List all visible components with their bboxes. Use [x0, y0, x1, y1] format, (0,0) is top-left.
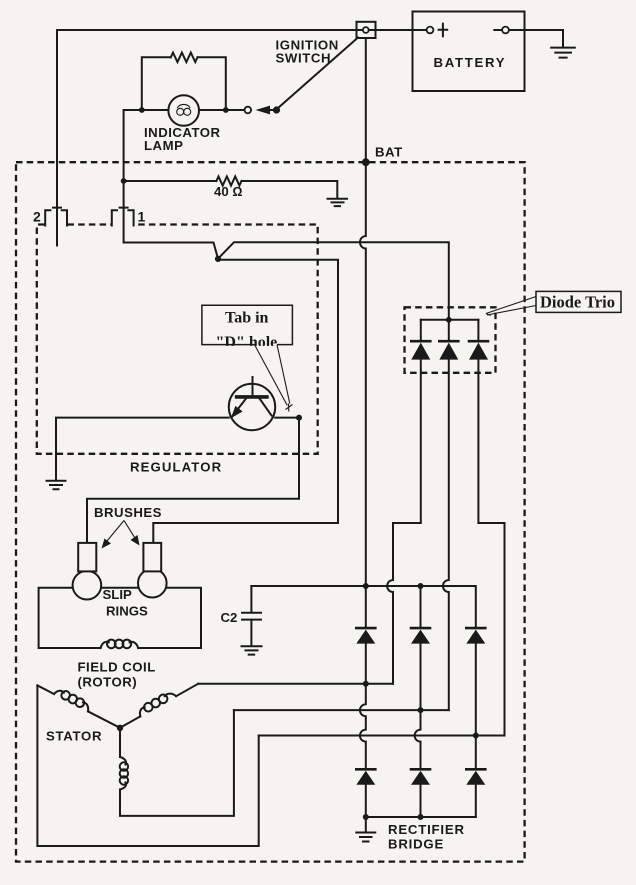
svg-text:BAT: BAT — [375, 145, 403, 160]
rectifier diode D4 (col1 upper) — [356, 627, 375, 630]
rectifier diode D6 (col3 upper) — [466, 627, 485, 630]
brush left — [78, 543, 96, 572]
ground (40 ohm) — [328, 199, 348, 206]
ignition switch terminal circle — [363, 27, 369, 33]
ground (C2) — [242, 646, 262, 654]
diode trio D2 — [448, 320, 450, 340]
svg-text:SWITCH: SWITCH — [276, 51, 332, 66]
svg-text:C2: C2 — [221, 610, 238, 625]
svg-text:Diode Trio: Diode Trio — [540, 293, 615, 312]
battery + sign — [439, 24, 448, 37]
BAT node dot — [362, 158, 370, 166]
ground (rectifier) — [356, 817, 375, 842]
wire battery minus to ground — [509, 30, 563, 47]
resistor (lamp shunt) zigzag — [171, 53, 198, 62]
svg-text:REGULATOR: REGULATOR — [130, 460, 222, 475]
ignition switch lever — [278, 38, 359, 109]
indicator lamp circle — [168, 95, 199, 126]
ground (regulator) — [47, 481, 66, 489]
svg-text:1: 1 — [138, 209, 146, 225]
ignition switch contact circle — [245, 107, 252, 114]
stator phase B line — [234, 709, 449, 711]
wire 40 ohm row — [124, 181, 338, 198]
rectifier diode D5 (col2 upper) — [420, 586, 422, 628]
brush right — [143, 543, 161, 572]
wire ignition switch to battery + — [376, 29, 427, 31]
transistor collector — [260, 399, 272, 416]
wire field node to right brush — [153, 260, 338, 544]
capacitor C2 lead and plates — [242, 586, 261, 645]
node ground rail col1 — [363, 814, 369, 820]
slip ring left circle — [73, 571, 102, 600]
stator phase C return wire — [120, 710, 234, 816]
BAT line vertical (ignition switch down to rectifier) with hop at y242 — [360, 38, 366, 628]
resistor (lamp shunt) branch wires — [142, 57, 226, 110]
tab callout leader lines — [255, 345, 290, 406]
rectifier diode D9 (col3 lower) — [466, 768, 485, 771]
wire through ignition switch box — [357, 29, 427, 31]
wire trio D1 down to phase A (hop over output rail) — [387, 360, 421, 684]
diode trio D1 — [420, 320, 422, 340]
svg-text:Tab in: Tab in — [225, 310, 269, 327]
rectifier ground rail — [366, 816, 476, 818]
terminal 1 collar — [112, 208, 134, 226]
svg-text:40 Ω: 40 Ω — [214, 184, 242, 199]
wire col1 lower (hops phase B and C lines) — [360, 644, 366, 769]
wire trio D2 down to phase B (hop over output rail) — [443, 360, 449, 710]
svg-text:2: 2 — [33, 209, 41, 225]
outer alternator dashed boundary box — [16, 162, 525, 861]
transistor Q1 circle — [229, 384, 275, 430]
wire lamp row — [124, 109, 245, 111]
node collector corner — [296, 415, 302, 421]
node phase A col1 — [363, 681, 369, 687]
wire collector to left brush — [87, 418, 299, 544]
stator phase A line — [198, 683, 393, 685]
svg-text:STATOR: STATOR — [46, 729, 102, 744]
rectifier diode D8 (col2 lower) — [411, 768, 430, 771]
tab callout border — [202, 305, 293, 344]
lamp filament — [177, 108, 184, 115]
svg-text:BATTERY: BATTERY — [434, 55, 507, 70]
tab in D hole callout box — [202, 305, 293, 344]
tab mark at transistor — [286, 404, 293, 412]
node lamp left — [139, 107, 145, 113]
battery box B1 — [413, 12, 525, 92]
rectifier diode D7 (col1 lower) — [356, 768, 375, 771]
svg-text:SLIP: SLIP — [103, 587, 133, 602]
svg-text:RINGS: RINGS — [106, 604, 148, 619]
output rail from C2 to rectifier — [251, 586, 475, 628]
wire emitter to ground leg — [56, 418, 229, 480]
diode trio bus — [421, 319, 479, 321]
terminal 2 collar — [45, 208, 67, 226]
ignition switch arrow — [256, 106, 271, 115]
node 40 ohm branch — [121, 178, 127, 184]
resistor 40 ohm zigzag — [216, 176, 241, 185]
stator Y node — [117, 725, 123, 731]
wire field node up to diode trio feed — [218, 242, 449, 320]
svg-text:BRUSHES: BRUSHES — [94, 505, 162, 520]
svg-text:FIELD COIL: FIELD COIL — [78, 659, 156, 674]
wire trio D3 down to phase C — [478, 360, 504, 736]
regulator dashed box — [37, 225, 318, 454]
svg-text:(ROTOR): (ROTOR) — [78, 675, 138, 690]
node rail col2 — [418, 583, 424, 589]
wire terminal 1 to field node — [124, 243, 218, 259]
stator phase A winding (upper left) — [88, 711, 120, 727]
transistor base lead — [252, 377, 254, 396]
transistor base bar — [235, 395, 269, 399]
field coil rotor frame — [39, 588, 201, 648]
Diode Trio callout box — [536, 291, 621, 312]
node rail BAT — [363, 583, 369, 589]
stator phase B winding (upper right) — [176, 684, 198, 696]
svg-text:RECTIFIER: RECTIFIER — [388, 822, 465, 837]
brushes pointer arrows — [105, 521, 125, 545]
slip ring right circle — [138, 569, 167, 598]
ignition switch pivot dot — [273, 106, 280, 113]
stator phase A return wire — [37, 685, 258, 846]
Diode Trio leader lines — [486, 297, 536, 316]
diode trio D3 — [477, 320, 479, 340]
stator phase C winding (down) — [119, 728, 121, 757]
svg-text:BRIDGE: BRIDGE — [388, 837, 444, 852]
wire col3 lower — [475, 644, 477, 769]
battery - terminal circle — [502, 27, 509, 34]
stator phase C line — [259, 735, 505, 737]
node phase C col3 — [473, 733, 479, 739]
ground (battery) — [551, 48, 575, 58]
node ground rail col2 — [418, 814, 424, 820]
svg-text:LAMP: LAMP — [144, 138, 183, 153]
ignition switch box — [357, 22, 376, 38]
node field junction — [215, 256, 221, 262]
wire lamp down to terminal 1 — [123, 110, 125, 243]
node lamp right — [223, 107, 229, 113]
diode trio dashed box — [405, 307, 496, 373]
transistor emitter with arrow — [232, 399, 246, 418]
node phase B col2 — [418, 707, 424, 713]
field coil winding — [101, 642, 109, 648]
battery + terminal circle — [427, 27, 434, 34]
wire top feed to regulator terminal 2 — [57, 30, 357, 246]
wire col2 lower (hops phase C line) — [415, 644, 421, 769]
node trio bus — [446, 317, 452, 323]
battery - sign — [494, 29, 501, 31]
